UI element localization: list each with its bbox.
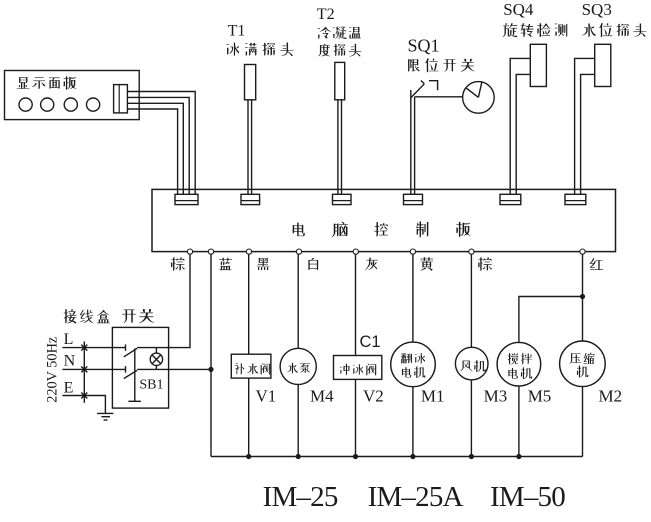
compressor M2 text 机 — [577, 366, 588, 378]
label M1 — [421, 387, 445, 406]
model label IM-50 — [490, 481, 565, 513]
terminal X on N — [81, 366, 87, 372]
label 白 (white) — [308, 258, 318, 270]
junction dot V2/bus — [353, 454, 358, 459]
label 开关 — [122, 309, 154, 323]
label 黄 (yellow) — [420, 257, 433, 271]
wire 白 white to M4 — [297, 254, 299, 456]
control board label 电脑控制板 — [293, 221, 471, 237]
junction dot M1/bus — [410, 454, 415, 459]
wire 红 red to M2 — [582, 254, 584, 456]
wire L — [62, 344, 125, 350]
label M4 — [310, 387, 334, 406]
SQ1 blade — [411, 81, 424, 98]
fan M3 风机 circle — [455, 347, 488, 380]
model label IM-25A — [368, 481, 464, 513]
label 冷凝温 — [318, 27, 361, 39]
wire 棕 brown to switch — [137, 254, 190, 347]
label 220V 50Hz — [45, 337, 61, 403]
label V2 — [363, 387, 384, 406]
label 黑 (black) — [257, 258, 270, 270]
T2 probe body — [335, 62, 345, 99]
motor M5 搅拌电机 circle — [497, 342, 541, 386]
svg-text:IM–50: IM–50 — [490, 481, 565, 513]
SQ3 body — [595, 44, 611, 86]
wire red branch to M5 — [519, 297, 583, 457]
svg-text:IM–25: IM–25 — [263, 481, 338, 513]
switch box 开关 — [112, 327, 168, 408]
SQ1 wire b — [414, 97, 416, 195]
SB1 linkage — [128, 348, 141, 401]
svg-text:220V 50Hz: 220V 50Hz — [45, 337, 61, 403]
wire 蓝 blue neutral — [210, 254, 212, 456]
label SQ4 — [503, 0, 534, 19]
label 限位开关 — [408, 58, 475, 72]
switch pole N blade — [124, 370, 137, 378]
svg-text:N: N — [64, 353, 76, 370]
pump M4 text 水泵 — [287, 363, 310, 374]
display panel box — [5, 71, 140, 120]
valve V1 text 补水阀 — [235, 363, 271, 375]
T1 probe body — [245, 65, 256, 100]
label 旋转检测 — [503, 23, 567, 37]
svg-text:E: E — [64, 380, 74, 397]
wire panel-3 — [127, 103, 183, 194]
wire 棕 brown2 to M3 — [470, 254, 472, 456]
connector J3 (T2) — [333, 194, 352, 204]
neutral bus wire — [211, 456, 583, 458]
display panel button 3 — [64, 98, 77, 111]
valve V1 补水阀 box — [231, 354, 271, 378]
SQ3 wire b — [581, 74, 595, 194]
wire 黑 black to V1 — [248, 254, 250, 456]
label SQ1 — [408, 35, 440, 55]
wire N — [62, 366, 125, 372]
T1 wire a — [247, 100, 249, 195]
junction dot M5/bus — [516, 454, 521, 459]
svg-text:M3: M3 — [484, 387, 508, 406]
svg-text:C1: C1 — [360, 333, 381, 351]
motor M1 翻冰电机 circle — [391, 342, 436, 387]
wire panel-4 — [127, 109, 177, 194]
label V1 — [256, 387, 277, 406]
svg-text:M5: M5 — [528, 387, 552, 406]
valve V2 text 冲冰阀 — [340, 364, 376, 376]
terminal X on L — [81, 345, 87, 351]
connector J4 (SQ1) — [404, 194, 423, 204]
board terminal 8 — [580, 249, 585, 254]
svg-text:M1: M1 — [421, 387, 445, 406]
label 度探头 — [318, 44, 361, 57]
SQ4 body — [530, 44, 546, 86]
junction dot red branch — [580, 294, 585, 299]
SQ4 wire a — [510, 58, 530, 194]
board terminal 1 — [187, 249, 192, 254]
control board box — [152, 189, 616, 251]
valve V2 冲冰阀 box — [334, 356, 382, 380]
timer cam circle — [463, 82, 495, 114]
label SB1 — [139, 378, 163, 393]
wire N to blue — [137, 368, 211, 370]
junction dot V1/bus — [246, 454, 251, 459]
switch pole L blade — [124, 348, 137, 357]
connector J1 (panel) — [175, 194, 198, 204]
label T2 — [317, 6, 335, 23]
svg-text:M2: M2 — [599, 387, 623, 406]
svg-text:SQ3: SQ3 — [582, 0, 612, 19]
svg-text:SB1: SB1 — [139, 378, 163, 393]
board terminal 2 — [208, 249, 213, 254]
wire 灰 grey to V2 — [355, 254, 357, 456]
label 冰满探头 — [226, 42, 293, 56]
label 水位探头 — [582, 23, 646, 37]
motor M1 text 翻冰 — [401, 353, 425, 364]
terminal X on E — [81, 393, 87, 399]
motor M5 text 搅拌 — [508, 353, 532, 365]
board terminal 6 — [410, 249, 415, 254]
display panel button 4 — [87, 98, 100, 111]
display panel label 显示面板 — [17, 76, 77, 90]
T2 wire a — [337, 100, 339, 195]
wire SQ1 to timer — [415, 96, 463, 98]
wire E — [62, 396, 105, 414]
indicator lamp — [150, 348, 162, 370]
junction dot M4/bus — [296, 454, 301, 459]
SQ3 wire a — [575, 58, 595, 194]
display panel button 2 — [41, 98, 54, 111]
board terminal 5 — [353, 249, 358, 254]
connector J6 (SQ3) — [565, 194, 586, 204]
label M5 — [528, 387, 552, 406]
compressor M2 压缩机 circle — [560, 341, 606, 387]
label T1 — [228, 23, 246, 40]
compressor M2 text 压缩 — [570, 353, 595, 364]
label 蓝 (blue) — [219, 258, 232, 271]
label 灰 (grey) — [365, 258, 378, 271]
motor M5 text 电机 — [508, 367, 532, 379]
SQ1 wire a — [410, 90, 412, 194]
board terminal 4 — [296, 249, 301, 254]
motor M1 text 电机 — [402, 366, 425, 377]
svg-text:L: L — [64, 331, 74, 348]
wire 黄 yellow to M1 — [412, 254, 414, 456]
label M3 — [484, 387, 508, 406]
label 棕 (brown) 2 — [478, 257, 492, 270]
terminal strip bar — [83, 342, 85, 403]
wire panel-2 — [127, 97, 189, 194]
connector J5 (SQ4) — [500, 194, 521, 204]
SQ1 fixed contact — [429, 81, 438, 91]
model label IM-25 — [263, 481, 338, 513]
fan M3 text 风机 — [460, 360, 486, 372]
board terminal 3 — [246, 249, 251, 254]
wire panel-1 — [127, 92, 195, 195]
label 接线盒 — [64, 309, 110, 324]
ground — [97, 413, 113, 420]
T2 wire b — [341, 100, 343, 195]
display panel connector — [114, 85, 128, 113]
SQ4 wire b — [516, 74, 530, 194]
svg-text:V2: V2 — [363, 387, 384, 406]
label 棕 (brown) — [171, 257, 185, 270]
svg-text:SQ4: SQ4 — [503, 0, 534, 19]
label 红 (red) — [590, 258, 603, 270]
svg-text:T2: T2 — [317, 6, 335, 23]
svg-text:V1: V1 — [256, 387, 277, 406]
label N — [64, 353, 76, 370]
board terminal 7 — [469, 249, 474, 254]
pump M4 水泵 circle — [280, 348, 316, 384]
svg-text:SQ1: SQ1 — [408, 35, 440, 55]
display panel button 1 — [19, 98, 32, 111]
label C1 — [360, 333, 381, 351]
label M2 — [599, 387, 623, 406]
svg-text:T1: T1 — [228, 23, 246, 40]
svg-text:IM–25A: IM–25A — [368, 481, 464, 513]
T1 wire b — [251, 100, 253, 195]
label E — [64, 380, 74, 397]
label SQ3 — [582, 0, 612, 19]
junction dot M3/bus — [469, 454, 474, 459]
label L — [64, 331, 74, 348]
svg-text:M4: M4 — [310, 387, 334, 406]
junction dot N/blue — [208, 367, 213, 372]
connector J2 (T1) — [241, 194, 260, 204]
